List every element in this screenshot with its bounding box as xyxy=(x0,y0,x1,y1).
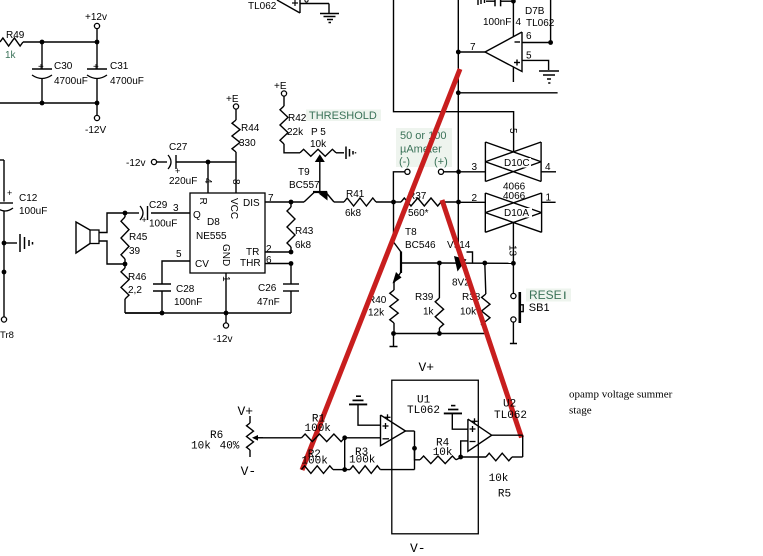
ground stub xyxy=(510,322,517,343)
svg-text:220uF: 220uF xyxy=(169,176,197,187)
svg-text:13: 13 xyxy=(507,245,518,257)
label stage xyxy=(569,405,592,417)
wire xyxy=(0,160,4,202)
ground xyxy=(539,71,559,83)
svg-text:C12: C12 xyxy=(19,193,38,204)
svg-text:TL062: TL062 xyxy=(494,410,527,422)
svg-text:D10C: D10C xyxy=(504,158,530,169)
terminal +E xyxy=(274,81,287,106)
terminal -12v xyxy=(126,158,157,169)
svg-text:+: + xyxy=(175,166,180,176)
node junction xyxy=(456,90,461,95)
resistor R46 xyxy=(121,264,147,299)
svg-text:T8: T8 xyxy=(405,227,417,238)
wire xyxy=(3,212,5,318)
wire control run xyxy=(394,0,514,152)
wire pin4 xyxy=(513,1,521,36)
terminal (-) xyxy=(393,169,410,202)
svg-text:-12v: -12v xyxy=(213,334,232,345)
wire xyxy=(41,42,43,69)
speaker LS xyxy=(76,222,99,253)
node junction xyxy=(511,0,516,4)
wire xyxy=(125,312,291,314)
wire pin6 xyxy=(522,31,551,43)
wire xyxy=(258,437,302,439)
wire pin5 xyxy=(162,249,190,284)
node junction xyxy=(123,211,128,216)
node junction xyxy=(289,250,294,255)
wire xyxy=(176,161,236,163)
svg-text:+: + xyxy=(38,62,44,73)
op-amp U D7B xyxy=(485,6,555,82)
resistor R37 xyxy=(394,191,459,219)
zener diode V914 8V2 xyxy=(447,202,473,289)
wire pin4 stub xyxy=(202,162,213,193)
svg-text:R41: R41 xyxy=(346,189,365,200)
svg-text:DIS: DIS xyxy=(243,198,260,209)
node junction xyxy=(456,169,461,174)
wire xyxy=(344,438,346,470)
wire main vertical xyxy=(457,0,459,202)
node junction xyxy=(95,101,100,106)
svg-text:R42: R42 xyxy=(288,113,307,124)
wire pin8 stub xyxy=(230,162,241,193)
svg-text:1k: 1k xyxy=(423,307,435,318)
svg-text:THR: THR xyxy=(240,258,261,269)
svg-text:6k8: 6k8 xyxy=(295,240,312,251)
capacitor C28 xyxy=(153,284,202,308)
wire pin5 xyxy=(522,51,549,71)
svg-text:V-: V- xyxy=(410,541,426,556)
terminal -12v bottom xyxy=(213,313,232,345)
svg-text:(-): (-) xyxy=(399,156,410,168)
label RESET xyxy=(526,288,571,302)
node junction xyxy=(412,446,417,451)
svg-text:100k: 100k xyxy=(305,423,332,435)
wire xyxy=(23,41,97,43)
svg-text:6k8: 6k8 xyxy=(345,208,362,219)
wire pin7 xyxy=(458,42,485,53)
svg-text:R39: R39 xyxy=(415,292,434,303)
terminal Tr8 xyxy=(0,317,14,341)
ground xyxy=(4,234,33,252)
wire xyxy=(157,161,167,163)
svg-text:22k: 22k xyxy=(287,127,304,138)
ground xyxy=(444,406,468,430)
svg-text:D7B: D7B xyxy=(525,6,545,17)
wire pin7 DIS xyxy=(265,193,304,204)
wire pin6 THR xyxy=(265,255,291,266)
svg-text:NE555: NE555 xyxy=(196,231,227,242)
svg-text:12k: 12k xyxy=(368,308,385,319)
capacitor 100nF xyxy=(478,0,513,28)
svg-text:4700uF: 4700uF xyxy=(54,76,88,87)
resistor R38 xyxy=(460,263,490,334)
terminal -12V xyxy=(85,103,106,136)
node junction xyxy=(206,160,211,165)
capacitor C26 xyxy=(257,264,299,314)
resistor R41 xyxy=(334,189,394,219)
label TL062 xyxy=(407,405,440,417)
resistor R42 xyxy=(280,106,307,144)
op-amp D7A (partial) xyxy=(248,0,300,13)
node junction xyxy=(458,455,463,460)
svg-text:VCC: VCC xyxy=(228,198,239,219)
svg-text:RESE: RESE xyxy=(529,288,562,302)
label THRESHOLD xyxy=(306,110,381,123)
potentiometer P5 xyxy=(300,127,344,191)
ground xyxy=(320,14,339,23)
op-amp U1 xyxy=(381,414,406,445)
svg-text:100k: 100k xyxy=(349,454,376,466)
svg-text:4700uF: 4700uF xyxy=(110,76,144,87)
ground stub xyxy=(390,334,398,347)
resistor R49 xyxy=(0,30,25,61)
terminal +12v xyxy=(85,12,107,42)
wire xyxy=(126,212,139,214)
wire xyxy=(550,0,552,43)
svg-text:39: 39 xyxy=(129,246,141,257)
ground xyxy=(346,147,356,160)
svg-text:5: 5 xyxy=(507,128,518,134)
wire xyxy=(99,241,125,264)
IC D8 NE555 box xyxy=(190,193,265,273)
svg-text:10k: 10k xyxy=(433,447,453,459)
potentiometer R6 xyxy=(191,404,263,479)
wire xyxy=(458,92,557,94)
resistor R2 xyxy=(301,449,344,473)
svg-text:2: 2 xyxy=(266,244,272,255)
node junction xyxy=(342,467,347,472)
svg-text:4: 4 xyxy=(516,17,522,28)
op-amp U2 xyxy=(468,418,492,451)
wire pin1 xyxy=(542,193,556,204)
label (+) xyxy=(434,156,448,168)
svg-text:C27: C27 xyxy=(169,142,188,153)
wire xyxy=(284,144,300,153)
svg-text:100nF: 100nF xyxy=(174,297,202,308)
wire pin2 TR xyxy=(265,244,291,255)
svg-text:C28: C28 xyxy=(176,284,195,295)
wire pin1 GND xyxy=(220,273,231,313)
resistor R40 xyxy=(368,290,398,334)
wire xyxy=(300,0,329,13)
svg-text:6: 6 xyxy=(526,31,532,42)
svg-text:V+: V+ xyxy=(419,360,435,375)
resistor R4 xyxy=(415,438,461,464)
svg-text:50 or 100: 50 or 100 xyxy=(400,130,446,142)
node junction xyxy=(2,241,7,246)
svg-text:T9: T9 xyxy=(298,167,310,178)
svg-text:Q: Q xyxy=(193,210,201,221)
node junction xyxy=(289,200,294,205)
svg-text:P 5: P 5 xyxy=(311,127,326,138)
wire xyxy=(161,291,163,313)
node junction xyxy=(437,261,442,266)
svg-text:100k: 100k xyxy=(301,455,328,467)
wire xyxy=(439,262,513,264)
wire xyxy=(512,263,514,293)
svg-text:+: + xyxy=(7,188,12,198)
node junction xyxy=(511,261,516,266)
svg-text:330: 330 xyxy=(239,138,256,149)
transistor T8 BC546 xyxy=(393,202,440,290)
terminal (+) xyxy=(438,169,458,174)
label SB1 xyxy=(529,302,550,314)
svg-text:R43: R43 xyxy=(295,226,314,237)
svg-text:opamp voltage summer: opamp voltage summer xyxy=(569,388,673,400)
svg-text:40%: 40% xyxy=(220,441,240,453)
svg-text:stage: stage xyxy=(569,405,592,417)
node junction xyxy=(2,270,7,275)
svg-text:R45: R45 xyxy=(129,232,148,243)
wire pin3 xyxy=(151,203,190,214)
power box xyxy=(392,380,479,534)
analog switch D10A xyxy=(485,193,541,232)
label V+ xyxy=(419,360,435,375)
capacitor C31 xyxy=(87,61,144,87)
svg-text:CV: CV xyxy=(195,259,209,270)
node junction xyxy=(482,261,487,266)
svg-text:10k: 10k xyxy=(310,139,327,150)
svg-text:V+: V+ xyxy=(238,404,254,419)
svg-text:TL062: TL062 xyxy=(407,405,440,417)
svg-text:µAmeter: µAmeter xyxy=(400,144,442,156)
svg-text:C31: C31 xyxy=(110,61,129,72)
svg-text:6: 6 xyxy=(266,255,272,266)
svg-text:+E: +E xyxy=(226,94,239,105)
svg-text:D8: D8 xyxy=(207,217,220,228)
svg-text:BC557: BC557 xyxy=(289,180,320,191)
resistor R43 xyxy=(287,202,314,252)
label opamp voltage summer xyxy=(569,388,673,400)
node junction xyxy=(123,262,128,267)
wire xyxy=(461,441,468,457)
node junction xyxy=(456,50,461,55)
svg-text:+12v: +12v xyxy=(85,12,107,23)
svg-text:C30: C30 xyxy=(54,61,73,72)
svg-text:4: 4 xyxy=(202,178,213,184)
ground xyxy=(349,396,381,425)
node junction xyxy=(160,311,165,316)
svg-text:R44: R44 xyxy=(241,123,260,134)
label 50 or 100 xyxy=(396,128,452,167)
wire pin4 xyxy=(541,162,556,173)
svg-text:10k: 10k xyxy=(191,441,211,453)
label U1 xyxy=(417,395,431,407)
resistor R39 xyxy=(415,263,444,334)
svg-text:TR: TR xyxy=(246,247,259,258)
svg-text:Tr8: Tr8 xyxy=(0,330,14,341)
resistor R3 xyxy=(345,447,415,473)
svg-text:+: + xyxy=(142,215,147,225)
node junction xyxy=(40,40,45,45)
resistor R1 xyxy=(302,413,345,441)
svg-text:SB1: SB1 xyxy=(529,302,550,314)
wire xyxy=(99,213,125,233)
label U2 xyxy=(503,399,516,411)
svg-text:C29: C29 xyxy=(149,200,168,211)
wire output U2 xyxy=(492,435,523,457)
node junction xyxy=(95,40,100,45)
wire pin3 xyxy=(459,162,486,173)
svg-text:-12V: -12V xyxy=(85,125,106,136)
svg-text:+E: +E xyxy=(274,81,287,92)
svg-text:(+): (+) xyxy=(434,156,448,168)
capacitor C29 xyxy=(140,200,177,230)
node junction xyxy=(342,435,347,440)
red annotation line xyxy=(302,69,460,470)
capacitor C12 xyxy=(0,188,47,217)
label TL062 xyxy=(494,410,527,422)
node junction xyxy=(391,200,396,205)
svg-text:10k: 10k xyxy=(489,473,509,485)
wire xyxy=(0,102,97,104)
label 4066 xyxy=(503,182,526,193)
svg-text:R5: R5 xyxy=(498,489,511,501)
svg-text:10k: 10k xyxy=(460,307,477,318)
analog switch D10C xyxy=(485,142,541,182)
node junction xyxy=(456,200,461,205)
node junction xyxy=(548,40,553,45)
switch SB1 xyxy=(511,292,523,323)
svg-text:D10A: D10A xyxy=(504,208,529,219)
svg-text:C26: C26 xyxy=(258,283,277,294)
label 4066 xyxy=(503,191,526,202)
svg-text:U2: U2 xyxy=(503,399,516,411)
svg-text:-12v: -12v xyxy=(126,158,145,169)
svg-text:1k: 1k xyxy=(5,50,17,61)
wire xyxy=(235,152,237,162)
resistor R5 xyxy=(461,453,523,500)
node junction xyxy=(224,311,229,316)
svg-text:100uF: 100uF xyxy=(149,219,177,230)
svg-text:5: 5 xyxy=(176,249,182,260)
svg-text:1: 1 xyxy=(220,276,231,282)
svg-text:V-: V- xyxy=(241,464,257,479)
node junction xyxy=(40,101,45,106)
svg-text:100uF: 100uF xyxy=(19,206,47,217)
svg-text:TL062: TL062 xyxy=(248,1,277,12)
wire xyxy=(41,79,43,104)
wire pin2 xyxy=(459,193,486,204)
red annotation line xyxy=(442,200,522,438)
svg-text:100nF: 100nF xyxy=(483,17,511,28)
svg-text:560*: 560* xyxy=(408,208,429,219)
wire xyxy=(345,437,381,439)
svg-text:2,2: 2,2 xyxy=(128,285,142,296)
wire xyxy=(96,42,98,69)
pin 5 label xyxy=(507,128,518,134)
wire xyxy=(394,333,486,335)
wire pin13 control xyxy=(507,223,518,263)
capacitor C30 xyxy=(32,61,88,87)
transistor T9 BC557 xyxy=(289,167,334,202)
svg-text:THRESHOLD: THRESHOLD xyxy=(309,110,377,122)
terminal +E xyxy=(226,94,239,120)
resistor R44 xyxy=(232,120,260,152)
label V- bottom xyxy=(410,541,426,556)
label (-) xyxy=(399,156,410,168)
label uAmeter xyxy=(400,144,442,156)
svg-text:R46: R46 xyxy=(128,272,147,283)
node junction xyxy=(437,331,442,336)
node junction xyxy=(289,261,294,266)
svg-text:R: R xyxy=(197,198,208,205)
svg-text:BC546: BC546 xyxy=(405,240,436,251)
svg-text:GND: GND xyxy=(220,244,231,266)
svg-text:47nF: 47nF xyxy=(257,297,280,308)
svg-text:8: 8 xyxy=(230,179,241,185)
svg-text:R49: R49 xyxy=(6,30,25,41)
wire output U1 xyxy=(406,431,415,470)
svg-text:+: + xyxy=(93,62,99,73)
wire xyxy=(96,79,98,104)
resistor R45 xyxy=(121,213,148,264)
wire xyxy=(125,299,162,313)
capacitor C27 xyxy=(168,142,197,187)
node junction xyxy=(391,331,396,336)
